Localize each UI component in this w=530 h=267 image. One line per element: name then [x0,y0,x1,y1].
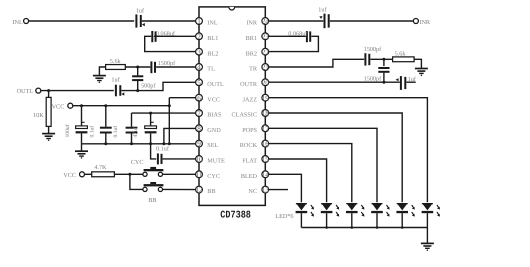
wire pin BLED to LED at x=301.4 [265,174,301,202]
node bus junction at VCC vertical [168,142,171,145]
pin 6 VCC circle [196,94,203,102]
node VCC terminal for rail [52,103,73,110]
wire bus to C10 MUTE branch [151,144,157,159]
capacitor C3 1500pf on TL [151,60,176,73]
wire pin TR step [265,59,364,67]
node LED bus junction x=326.6 [325,226,328,229]
label LED*6 [275,213,293,220]
capacitor C6 100uf VCC decoupling [65,106,88,144]
node TR junction [382,58,385,61]
resistor R3 4.7K [92,164,115,177]
pin INR name label [246,20,258,27]
pin 19 JAZZ circle [262,94,270,102]
svg-text:0.1uf: 0.1uf [113,126,119,138]
wire S1 to pin 11 CYC [162,173,199,175]
wire C15 stub [406,81,415,83]
pin ROCK name label [240,142,258,149]
svg-text:23: 23 [262,33,270,41]
wire INL terminal to C1 [28,20,134,22]
node rail junction at C6 [80,104,83,107]
svg-text:INR: INR [419,19,431,26]
svg-text:BR1: BR1 [246,35,257,42]
pin BLED name label [241,173,258,180]
svg-text:FLAT: FLAT [242,158,257,165]
pin 14 BLED circle [262,171,270,179]
wire pin FLAT to LED at x=326.6 [265,159,326,202]
svg-text:CYC: CYC [131,159,144,166]
svg-text:ROCK: ROCK [240,142,258,149]
svg-text:BL1: BL1 [207,35,218,42]
svg-text:TL: TL [207,66,215,73]
wire C13 to TR junction [370,58,392,60]
node TL junction [136,66,139,69]
pin TR name label [249,66,258,73]
svg-text:24: 24 [262,18,270,26]
svg-text:13: 13 [262,186,270,194]
wire pin BR1 to C12 [265,35,306,37]
capacitor C8 0.1uf BIAS decoupling [113,113,137,144]
pin 2 BL1 circle [196,33,203,41]
capacitor C4 500pf TL to OUTL line [132,67,156,91]
wire pin 8 GND lead [164,128,199,143]
svg-text:OUTL: OUTL [207,81,224,88]
node LED bus junction x=377.0 [376,226,379,229]
pin SEL name label [207,142,218,149]
pin BL2 name label [207,50,218,57]
svg-text:1uf: 1uf [111,77,120,84]
capacitor C13 1500pf on TR [364,46,382,66]
node LED bus junction x=402.2 [401,226,404,229]
svg-text:OUTL: OUTL [17,88,34,95]
node OUTL-R2 junction [47,89,50,92]
svg-text:47uf: 47uf [133,127,139,137]
wire S2 to pin 12 BB [162,188,199,190]
LED D5 [396,203,414,228]
svg-text:15: 15 [262,156,270,164]
pin 4 TL circle [196,64,203,72]
svg-text:BB: BB [207,188,215,195]
capacitor C14 1500pf TR to OUTR line [364,59,390,82]
wire junction to S1 [130,173,143,175]
wire pin JAZZ to LED at x=427.4 [265,98,427,203]
svg-text:8: 8 [197,125,201,133]
svg-text:18: 18 [262,110,270,118]
LED D2 [321,203,339,228]
wire pin 2 BL1 to C2 [154,35,199,37]
svg-text:10K: 10K [33,112,44,119]
node switch junction [128,173,131,176]
wire NC stub [265,189,288,191]
pin 17 POPS circle [262,125,270,133]
pin 21 TR circle [262,64,270,72]
pin NC name label [248,188,257,195]
svg-text:BB: BB [148,197,156,204]
pin 24 INR circle [262,18,270,26]
svg-text:INL: INL [13,19,24,26]
pin 13 NC circle [262,186,270,194]
LED D3 [346,203,364,228]
svg-text:12: 12 [195,186,203,194]
pin 12 BB circle [195,186,203,194]
pin GND name label [207,127,221,134]
node rail junction at C7 [104,104,107,107]
svg-text:TR: TR [249,66,258,73]
pin 9 SEL circle [196,140,203,148]
node bus junction at C8 [130,142,133,145]
node OUTL output terminal [17,88,41,95]
svg-text:17: 17 [262,125,270,133]
svg-text:INR: INR [246,20,258,27]
ground at R2 [42,134,55,141]
svg-text:1500pf: 1500pf [158,60,176,67]
wire VCC2 to R3 [84,173,91,175]
node VCC terminal for switches [63,172,84,179]
svg-text:5.6k: 5.6k [395,50,407,57]
capacitor C5 1uf OUTL coupling [111,77,124,97]
pin FLAT name label [242,158,257,165]
node INR input terminal [413,19,431,27]
svg-text:1: 1 [197,18,201,26]
svg-text:11: 11 [196,171,203,179]
pin 7 BIAS circle [196,110,203,118]
node bus junction at GND lead [162,142,165,145]
svg-text:SEL: SEL [207,142,218,149]
svg-text:NC: NC [248,188,257,195]
svg-text:4: 4 [197,64,201,72]
resistor R2 10K OUTL to ground [33,91,51,134]
wire VCC rail [73,105,170,107]
IC U1 CD7388 body [199,7,265,206]
pin TL name label [207,66,215,73]
svg-text:VCC: VCC [207,96,220,103]
pin 20 OUTR circle [262,79,270,87]
pin VCC name label [207,96,220,103]
wire C12 loop to pin BR2 [265,36,318,51]
svg-text:CD7388: CD7388 [220,209,251,221]
wire pin 13R INR to C11 [265,20,323,22]
svg-text:OUTR: OUTR [240,81,258,88]
node OUTL-C4 junction [136,89,139,92]
svg-text:5.6k: 5.6k [110,58,122,65]
svg-text:VCC: VCC [63,172,76,179]
LED D6 [422,203,440,228]
wire C11 to INR terminal [330,20,414,22]
wire bus to LED ground [426,228,428,244]
svg-text:1500pf: 1500pf [364,46,382,53]
pin 23 BR1 circle [262,33,270,41]
resistor R4 5.6k TR to ground [393,50,415,61]
svg-text:0.068uf: 0.068uf [156,30,176,37]
svg-text:BLED: BLED [241,173,258,180]
pin BB name label [207,188,215,195]
wire C10 to pin 10 MUTE [163,158,199,160]
node bus junction at C9 [149,142,152,145]
label BB for S2 [148,197,156,204]
svg-text:VCC: VCC [52,103,65,110]
ground at main bus [75,151,88,158]
svg-text:GND: GND [207,127,221,134]
wire C1 to pin 1 [142,20,199,22]
svg-text:14: 14 [262,171,270,179]
ground at R4 [415,69,428,76]
wire pin CLASSIC to LED at x=402.2 [265,113,402,202]
pin INL name label [207,20,218,27]
svg-text:2: 2 [197,33,201,41]
capacitor C11 1uf INR coupling [318,7,328,29]
pin 15 FLAT circle [262,156,270,164]
svg-text:21: 21 [262,64,270,72]
capacitor C7 0.1uf VCC decoupling [89,106,111,144]
pin 16 ROCK circle [262,140,270,148]
wire R4 to ground [414,59,421,68]
pin 1 INL circle [196,18,203,26]
pin 3 BL2 circle [196,48,203,56]
pin CLASSIC name label [232,112,257,119]
svg-text:INL: INL [207,20,218,27]
wire C5 to OUTL junction [121,90,137,92]
label CYC for S1 [131,159,144,166]
svg-text:16: 16 [262,140,270,148]
wire pin 6 VCC lead [169,97,199,99]
switch S1 pushbutton CYC [143,167,164,177]
capacitor C9 47uf BIAS decoupling [133,113,157,144]
svg-text:10: 10 [195,156,203,164]
svg-text:BIAS: BIAS [207,112,222,119]
svg-text:CYC: CYC [207,173,220,180]
wire OUTL line to pin 5 [138,82,199,90]
svg-text:9: 9 [197,140,201,148]
pin MUTE name label [207,158,225,165]
svg-text:MUTE: MUTE [207,158,225,165]
svg-text:22: 22 [262,48,270,56]
pin 22 BR2 circle [262,48,270,56]
svg-text:0.1uf: 0.1uf [156,145,170,152]
pin OUTL name label [207,81,224,88]
capacitor C1 1uf INL coupling [136,8,145,28]
capacitor C15 1uf OUTR [396,76,417,90]
svg-text:6: 6 [197,94,201,102]
svg-text:LED*6: LED*6 [275,213,293,220]
wire pin 4 TL to C3 [156,66,199,68]
LED D4 [371,203,389,228]
pin BIAS name label [207,112,222,119]
pin BR2 name label [246,50,257,57]
ground at R1 [93,76,106,83]
svg-text:CLASSIC: CLASSIC [232,112,257,119]
capacitor C10 0.1uf MUTE [156,145,170,164]
pin OUTR name label [240,81,258,88]
svg-text:1uf: 1uf [318,7,327,14]
svg-text:7: 7 [197,110,201,118]
wire R1 to ground [99,67,105,76]
wire pin ROCK to LED at x=351.8 [265,144,352,203]
pin 11 CYC circle [196,171,203,179]
svg-text:BR2: BR2 [246,50,257,57]
wire junction down to S2 [130,174,143,189]
pin 18 CLASSIC circle [262,110,270,118]
svg-text:4.7K: 4.7K [94,164,107,171]
node BIAS-C9 junction [149,112,152,115]
node rail end junction [168,104,171,107]
pin BL1 name label [207,35,218,42]
svg-text:0.068uf: 0.068uf [288,30,308,37]
svg-text:0.1uf: 0.1uf [89,126,95,138]
wire pin POPS to LED at x=377.0 [265,128,377,202]
wire bus to ground symbol [81,144,83,151]
svg-text:POPS: POPS [242,127,257,134]
pin BR1 name label [246,35,257,42]
svg-text:100uf: 100uf [65,124,71,137]
svg-text:1500pf: 1500pf [364,75,382,82]
capacitor C2 0.068uf between BL1 and BL2 [152,30,176,42]
wire OUTL terminal to C5 [41,90,114,92]
svg-text:3: 3 [197,48,201,56]
svg-text:19: 19 [262,94,270,102]
pin 10 MUTE circle [195,156,203,164]
node bus junction at C7 [104,142,107,145]
pin 5 OUTL circle [196,79,203,87]
pin POPS name label [242,127,257,134]
wire LED cathode bus [301,227,427,229]
pin 8 GND circle [196,125,203,133]
pin CYC name label [207,173,220,180]
wire C2 loop to pin 3 BL2 [145,36,199,51]
svg-text:1uf: 1uf [136,8,145,15]
wire pin 7 BIAS line [132,112,200,114]
svg-text:20: 20 [262,79,270,87]
capacitor C12 0.068uf between BR1 and BR2 [288,30,310,42]
wire pin OUTR to C15 [265,81,400,83]
IC U1 part number label CD7388 [220,209,251,221]
resistor R1 5.6k TL to ground [106,58,126,69]
pin JAZZ name label [243,96,258,103]
wire VCC vertical to bus [168,98,170,144]
wire R3 to switch junction [114,173,129,175]
LED D1 [296,203,314,228]
ground at LED bus [421,243,434,250]
wire ground bus to pin 9 SEL [82,143,200,145]
svg-text:BL2: BL2 [207,50,218,57]
wire C3 to node TLJ [125,66,150,68]
node INL input terminal [13,19,29,26]
node OUTR-C14 junction [382,81,385,84]
switch S2 pushbutton BB [143,182,164,191]
svg-text:500pf: 500pf [141,82,156,89]
node LED bus junction x=351.8 [351,226,354,229]
svg-text:JAZZ: JAZZ [243,96,258,103]
svg-text:5: 5 [197,79,201,87]
